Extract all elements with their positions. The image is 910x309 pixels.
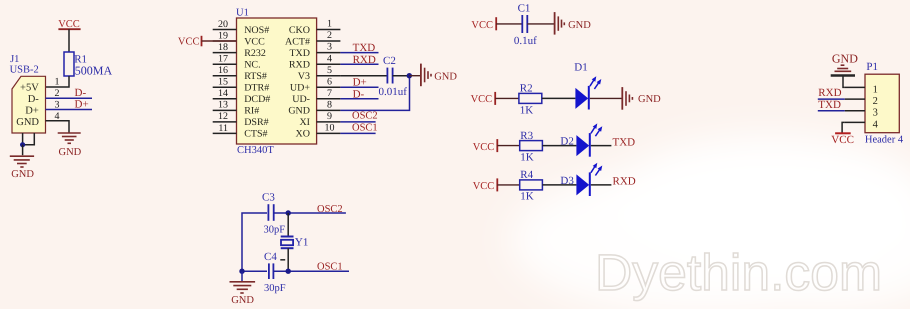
wire D- (U1 pin7) [340,98,378,100]
wire VCC to R4 [497,184,519,186]
svg-text:11: 11 [218,123,228,134]
svg-text:C3: C3 [262,192,275,204]
svg-text:9: 9 [327,111,332,122]
svg-text:13: 13 [218,100,228,111]
svg-text:DCD#: DCD# [244,94,270,105]
wire D+ (U1 pin6) [340,86,378,88]
U1 right pin numbers [325,19,335,134]
svg-text:ACT#: ACT# [285,36,310,47]
svg-text:R2: R2 [520,83,533,95]
svg-text:20: 20 [218,19,228,30]
wire J1 shield stubs [23,133,35,145]
ground (C1) [555,12,565,34]
svg-text:GND: GND [638,94,661,105]
U1 right pin stubs [317,30,341,134]
svg-text:R232: R232 [244,48,266,59]
svg-text:J1: J1 [10,54,19,65]
svg-text:1: 1 [873,84,878,95]
power port VCC (R4) [473,178,498,192]
svg-text:2: 2 [873,96,878,107]
svg-text:TXD: TXD [289,48,310,59]
svg-text:VCC: VCC [471,20,493,31]
svg-text:VCC: VCC [178,36,200,47]
svg-text:15: 15 [218,77,228,88]
wire J1 pin3 D+ [46,109,93,111]
wire junction to ground [22,145,24,156]
svg-text:7: 7 [327,88,332,99]
svg-text:GND: GND [288,106,310,117]
resistor R2 [519,93,542,103]
wire TXD (U1 pin3) [340,52,378,54]
P1 pin numbers [873,84,879,130]
svg-text:D-: D- [75,87,87,99]
power port VCC (R2) [471,92,496,105]
svg-text:USB-2: USB-2 [10,65,39,76]
ground (C2) [421,64,431,87]
wire V3 to C2 [340,75,386,77]
wire VCC to R3 [497,145,519,147]
wire D1 to ground [590,97,622,99]
wire D2 to TXD [591,145,612,147]
svg-text:D3: D3 [560,175,574,187]
svg-text:RTS#: RTS# [244,71,267,82]
svg-text:XI: XI [299,117,310,128]
wire R3 to D2 [542,145,576,147]
svg-text:D1: D1 [574,61,587,73]
LED D2 [576,123,602,156]
svg-text:D+: D+ [353,77,367,89]
svg-text:2: 2 [327,30,332,41]
svg-text:1: 1 [55,76,60,87]
svg-text:500MA: 500MA [75,63,113,77]
svg-text:VCC: VCC [473,142,495,153]
svg-text:RI#: RI# [244,106,259,117]
svg-text:+5V: +5V [20,83,39,94]
svg-text:12: 12 [218,111,228,122]
svg-text:OSC2: OSC2 [352,111,378,122]
wire Y1 bottom [287,248,289,271]
wire C2 to junction [393,75,410,77]
wire OSC1 (U1 pin10) [340,132,375,134]
svg-text:6: 6 [327,76,332,87]
wire R1 to J1 pin1 [46,76,70,87]
svg-text:GND: GND [231,295,254,306]
wire P1 pin4 to VCC [842,122,845,132]
ground (J1 shield) [10,156,34,167]
svg-text:8: 8 [327,100,332,111]
capacitor C1 [522,15,527,33]
svg-text:D-: D- [28,94,40,105]
P1 pin stubs [845,87,865,122]
wire junction to ground [409,75,420,77]
power port VCC (R3) [473,139,498,153]
svg-text:CKO: CKO [289,25,310,36]
svg-text:TXD: TXD [353,42,376,54]
U1 left pin names [244,25,270,140]
svg-text:OSC2: OSC2 [317,204,343,215]
resistor R4 [520,180,543,190]
svg-text:C4: C4 [264,251,277,263]
junction (J1 shield) [20,142,25,147]
wire R4 to D3 [542,184,576,186]
wire OSC2 right [274,212,346,214]
wire RXD to P1 pin2 [818,98,845,100]
svg-text:CH340T: CH340T [237,145,274,156]
wire C1 to ground [527,23,554,25]
svg-text:3: 3 [327,42,332,53]
wire RXD (U1 pin4) [340,63,378,65]
svg-text:0.1uf: 0.1uf [514,35,537,47]
svg-text:XO: XO [296,129,310,140]
ground (J1 pin4) [58,133,81,143]
wire J1 pin4 to ground [46,121,70,133]
wire VCC to R2 [495,97,519,99]
svg-text:D+: D+ [25,106,39,117]
svg-text:RXD: RXD [613,176,636,188]
resistor R1 [64,52,74,76]
LED D1 [575,76,601,109]
svg-text:DTR#: DTR# [244,83,269,94]
wire OSC1 left [242,270,267,272]
svg-text:14: 14 [218,88,228,99]
svg-text:5: 5 [327,65,332,76]
IC U1 CH340T body [237,18,317,144]
wire VCC to C1 [496,23,521,25]
power port VCC (U1 pin19) [178,36,237,48]
svg-text:NOS#: NOS# [244,25,269,36]
svg-text:OSC1: OSC1 [352,122,378,133]
svg-text:VCC: VCC [473,181,495,192]
svg-text:C2: C2 [383,55,396,67]
dash mark (C4) [280,259,285,261]
connector J1 USB-2 [10,54,46,133]
svg-text:1K: 1K [520,105,534,117]
crystal Y1 [281,237,294,249]
svg-text:1: 1 [327,19,332,30]
svg-text:10: 10 [325,123,335,134]
junction (C2/GND/pin8) [407,73,412,78]
svg-text:GND: GND [11,169,34,180]
svg-text:CTS#: CTS# [244,129,267,140]
wire junction to ground (crystal) [241,271,243,281]
svg-text:GND: GND [832,51,858,65]
wire U1 pin8 GND to junction [340,78,409,111]
wire left vertical (C3/C4 common) [242,213,267,271]
capacitor C2 [387,68,392,84]
svg-text:Dyethin.com: Dyethin.com [595,244,882,301]
svg-text:TXD: TXD [613,136,636,148]
svg-text:18: 18 [218,42,228,53]
U1 left pin stubs [213,30,237,134]
svg-text:DSR#: DSR# [244,117,268,128]
svg-text:C1: C1 [518,3,531,15]
svg-text:V3: V3 [298,71,310,82]
svg-text:P1: P1 [866,61,878,73]
wire P1 pin1 to ground [843,77,845,88]
U1 left pin numbers [218,19,228,134]
capacitor C3 [268,204,273,221]
ground (D1) [622,87,632,110]
wire OSC1 right [273,270,349,272]
svg-text:GND: GND [434,71,457,82]
resistor R3 [520,141,543,151]
svg-text:4: 4 [327,53,332,64]
svg-text:R3: R3 [520,130,533,142]
svg-text:RXD: RXD [353,54,376,66]
wire Y1 top [287,213,289,237]
LED D3 [576,163,602,196]
wire TXD to P1 pin3 [818,110,845,112]
svg-text:0.01uf: 0.01uf [379,86,408,98]
svg-text:NC.: NC. [244,60,260,71]
power port VCC (top-left) [58,19,80,52]
wire J1 pin2 D- [46,97,93,99]
wire D3 to RXD [591,184,612,186]
junction (OSC2/Y1) [286,210,291,215]
ground (P1, pointing up) [831,65,855,75]
svg-text:Header 4: Header 4 [865,135,904,146]
svg-text:OSC1: OSC1 [317,261,343,272]
svg-text:VCC: VCC [831,134,854,146]
svg-text:GND: GND [16,117,39,128]
svg-text:1K: 1K [520,191,534,203]
junction (OSC1/Y1) [286,269,291,274]
power port VCC (P1) [831,133,854,146]
svg-text:17: 17 [218,54,228,65]
svg-text:GND: GND [568,20,591,31]
capacitor C4 [269,263,274,279]
svg-text:4: 4 [873,119,879,130]
svg-text:2: 2 [55,88,60,99]
svg-text:UD+: UD+ [290,83,310,94]
svg-text:VCC: VCC [244,36,265,47]
power port VCC (C1) [471,17,496,31]
wire OSC2 (U1 pin9) [340,121,375,123]
svg-text:D-: D- [353,88,365,100]
svg-text:RXD: RXD [818,87,841,99]
svg-text:RXD: RXD [289,60,310,71]
svg-text:16: 16 [218,65,228,76]
svg-text:UD-: UD- [292,94,310,105]
svg-text:D+: D+ [75,98,89,110]
svg-text:19: 19 [218,30,228,41]
svg-text:3: 3 [873,108,878,119]
svg-text:GND: GND [59,147,82,158]
svg-text:R4: R4 [520,169,533,181]
svg-text:U1: U1 [236,7,249,18]
svg-text:D2: D2 [560,136,573,148]
ground (crystal) [230,282,256,293]
svg-text:Y1: Y1 [295,236,308,248]
wire R2 to D1 [542,97,576,99]
svg-text:30pF: 30pF [264,283,286,294]
svg-text:1K: 1K [520,151,534,163]
U1 right pin names [285,25,310,140]
svg-text:VCC: VCC [471,94,493,105]
connector P1 body [865,74,899,133]
junction (OSC1/GND) [239,269,244,274]
svg-text:TXD: TXD [818,99,841,111]
svg-text:30pF: 30pF [264,224,286,235]
